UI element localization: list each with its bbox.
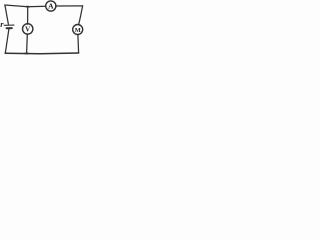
wire bottom segment [5,52,78,55]
voltmeter V1 [23,24,33,34]
wire right vertical upper [79,6,83,25]
wire voltmeter branch lower [26,34,29,53]
wire top-left segment [5,5,46,7]
wire right vertical lower [77,35,80,53]
svg-text:A: A [48,2,54,11]
wire left vertical upper [5,5,8,24]
wire top-right segment [56,5,83,7]
svg-text:r: r [0,19,4,29]
wire voltmeter branch upper [27,7,29,25]
battery cell B1 short thick plate [7,27,12,29]
motor M1 [73,25,83,35]
wire left vertical lower [5,29,9,53]
node junction top of voltmeter branch [26,6,29,8]
node junction bottom of voltmeter branch [25,53,28,55]
svg-text:V: V [25,26,30,34]
ammeter A1 [46,1,56,11]
svg-text:M: M [75,27,81,34]
battery cell B1 long plate [4,24,14,26]
